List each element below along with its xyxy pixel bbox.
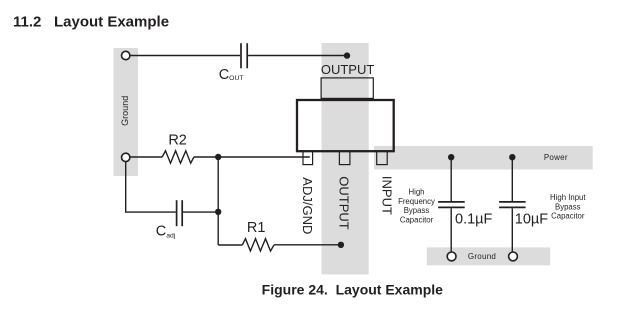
node on output strip (R1 end dot) — [338, 242, 344, 248]
svg-text:Capacitor: Capacitor — [400, 216, 434, 225]
svg-text:High Input: High Input — [550, 193, 586, 202]
pin 1 ADJ/GND — [303, 151, 313, 164]
power plane strip (right) — [374, 146, 593, 170]
ground plane strip (left) — [114, 48, 139, 176]
via (ground, bottom right of C2) — [509, 252, 518, 261]
svg-text:Capacitor: Capacitor — [551, 212, 585, 221]
via (ground, left lower) — [122, 153, 130, 161]
node on power plane (C1) — [448, 154, 454, 160]
svg-text:High: High — [408, 187, 424, 196]
svg-text:0.1µF: 0.1µF — [455, 212, 493, 228]
wire (C1 bottom plate to ground via) — [450, 208, 452, 251]
wire (COUT to output node) — [248, 55, 347, 57]
resistor R1 — [242, 239, 274, 251]
junction node A — [215, 154, 221, 160]
wire (power to C1 top plate) — [450, 157, 452, 201]
capacitor Cadj — [177, 200, 183, 226]
wire (corner to R1) — [218, 244, 242, 246]
ground plane strip (bottom right) — [427, 247, 550, 265]
capacitor C2 10uF plates — [499, 202, 525, 208]
svg-text:Layout Example: Layout Example — [54, 14, 169, 31]
via (ground, top left) — [122, 51, 130, 59]
svg-text:R2: R2 — [168, 132, 187, 148]
svg-text:Bypass: Bypass — [555, 202, 581, 211]
svg-text:Cadj: Cadj — [156, 224, 176, 240]
wire (R2 to ADJ pin) — [194, 156, 310, 158]
svg-text:OUTPUT: OUTPUT — [321, 62, 375, 77]
svg-text:Ground: Ground — [120, 96, 130, 126]
node on power plane (C2) — [509, 154, 515, 160]
svg-text:R1: R1 — [247, 220, 266, 236]
svg-text:ADJ/GND: ADJ/GND — [300, 177, 315, 234]
regulator U1 body — [297, 100, 394, 151]
svg-text:Figure 24. Layout Example: Figure 24. Layout Example — [262, 282, 443, 298]
capacitor C1 0.1uF plates — [438, 202, 465, 208]
svg-text:Frequency: Frequency — [398, 197, 435, 206]
wire (node A down to R1 row) — [217, 157, 219, 245]
wire (power to C2 top plate) — [511, 157, 513, 201]
svg-text:OUTPUT: OUTPUT — [336, 176, 351, 230]
wire (C2 bottom plate to ground via) — [511, 208, 513, 251]
svg-text:Power: Power — [544, 153, 568, 162]
pin 3 INPUT — [377, 151, 388, 164]
pin 2 OUTPUT — [339, 151, 350, 164]
svg-text:Ground: Ground — [468, 252, 496, 261]
svg-text:COUT: COUT — [219, 67, 244, 83]
regulator U1 tab — [321, 78, 373, 99]
svg-text:10µF: 10µF — [515, 212, 548, 228]
svg-text:INPUT: INPUT — [380, 176, 395, 215]
wire (via down and right to Cadj) — [126, 162, 176, 213]
output trace strip (vertical) — [322, 43, 369, 274]
wire (lower via to R2) — [130, 156, 162, 158]
wire (R1 to output strip) — [274, 244, 341, 246]
svg-text:11.2: 11.2 — [13, 14, 41, 31]
wire (top ground via to COUT) — [130, 55, 240, 57]
wire (Cadj to node B) — [183, 211, 218, 213]
node OUTPUT junction dot — [344, 52, 350, 58]
junction node B — [215, 209, 221, 215]
resistor R2 — [162, 151, 194, 163]
capacitor COUT — [241, 43, 247, 68]
svg-text:Bypass: Bypass — [404, 206, 430, 215]
via (ground, bottom left of C1) — [447, 252, 456, 261]
